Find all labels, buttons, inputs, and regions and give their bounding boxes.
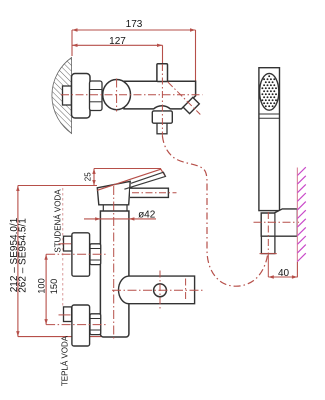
svg-text:25: 25 (83, 172, 92, 181)
svg-text:STUDENÁ VODA: STUDENÁ VODA (53, 189, 62, 253)
svg-text:ø42: ø42 (138, 210, 156, 221)
svg-text:173: 173 (126, 19, 143, 30)
svg-text:100: 100 (37, 278, 47, 294)
svg-text:150: 150 (49, 279, 59, 295)
svg-text:TEPLÁ VODA: TEPLÁ VODA (60, 335, 69, 386)
svg-text:127: 127 (109, 36, 126, 47)
svg-text:262 – SE954.5/1: 262 – SE954.5/1 (18, 218, 29, 293)
svg-text:40: 40 (278, 268, 290, 279)
